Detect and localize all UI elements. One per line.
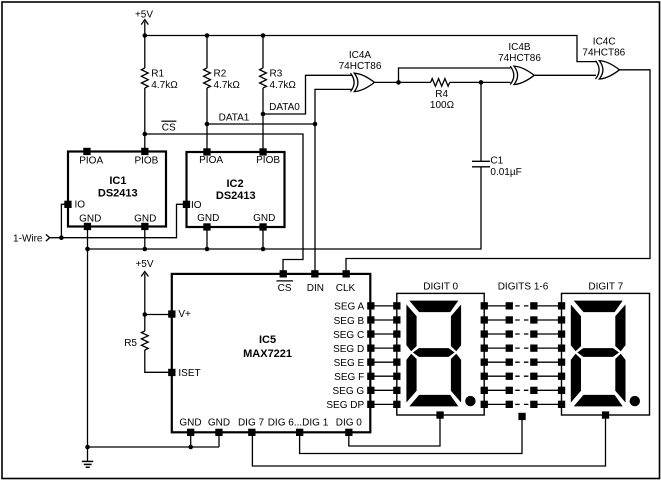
pin IC2 PIOA	[203, 148, 210, 155]
svg-text:PIOB: PIOB	[134, 156, 158, 167]
+5V supply arrow (top)	[141, 20, 148, 25]
svg-text:1-Wire: 1-Wire	[13, 234, 43, 245]
pin bus left SEG D	[506, 345, 513, 352]
pin IC5 SEG DP	[367, 401, 374, 408]
svg-text:IC2: IC2	[226, 178, 243, 190]
pin IC5 SEG A	[367, 302, 374, 309]
pin display2 SEG DP	[558, 401, 565, 408]
wire IC4B output to IC4C input	[534, 74, 597, 76]
pin bus left SEG F	[506, 373, 513, 380]
pin display2 SEG G	[558, 387, 565, 394]
svg-text:GND: GND	[197, 213, 219, 224]
svg-text:R4: R4	[435, 89, 448, 100]
wire bypass to IC4B top input	[399, 68, 511, 82]
pin display1 SEG A	[393, 302, 400, 309]
wire to R4	[399, 81, 431, 83]
pin display1 right SEG B	[481, 316, 488, 323]
svg-text:4.7kΩ: 4.7kΩ	[270, 80, 297, 91]
svg-text:SEG G: SEG G	[333, 386, 365, 397]
wire DATA1 to IC4A and DIN	[315, 89, 352, 272]
svg-text:100Ω: 100Ω	[430, 100, 455, 111]
pin display1 right SEG DP	[481, 401, 488, 408]
svg-text:IC4C: IC4C	[593, 37, 616, 48]
wire R1 to PIOB	[144, 88, 146, 150]
pin bus right SEG A	[530, 302, 537, 309]
svg-text:IC4A: IC4A	[349, 50, 372, 61]
wire DATA1 net	[207, 123, 315, 125]
pin IC2 PIOB	[259, 148, 266, 155]
capacitor C1	[472, 161, 490, 167]
svg-text:SEG D: SEG D	[333, 344, 364, 355]
pin IC5 GND1	[187, 429, 194, 436]
svg-text:R5: R5	[124, 338, 137, 349]
svg-text:PIOA: PIOA	[199, 155, 223, 166]
pin IC5 GND2	[215, 429, 222, 436]
pin display1 SEG G	[393, 387, 400, 394]
pin IC5 V+	[168, 310, 175, 317]
pin display1 SEG B	[393, 316, 400, 323]
svg-text:MAX7221: MAX7221	[243, 348, 292, 360]
wire +5V to V+	[145, 274, 169, 315]
pin IC5 SEG C	[367, 330, 374, 337]
pin IC1 GND1	[84, 223, 91, 230]
svg-text:DIN: DIN	[307, 283, 324, 294]
pin display1 SEG D	[393, 345, 400, 352]
wire SEG row	[371, 305, 397, 307]
pin bus left SEG E	[506, 359, 513, 366]
pin IC5 DIG6-1	[296, 429, 303, 436]
wire IC1 GND pins	[87, 227, 89, 249]
resistor R3	[260, 68, 267, 88]
pin bus right SEG DP	[530, 401, 537, 408]
svg-text:PIOB: PIOB	[256, 155, 280, 166]
IC1 DS2413 box	[68, 152, 166, 227]
wire R2 column	[206, 36, 208, 69]
wire DIG 0 to digit 0 display	[349, 415, 440, 446]
pin IC5 SEG D	[367, 345, 374, 352]
pin IC2 GND2	[259, 223, 266, 230]
svg-text:DIG 7: DIG 7	[238, 417, 265, 428]
pin display1 right SEG E	[481, 359, 488, 366]
svg-text:IO: IO	[75, 200, 86, 211]
svg-text:+5V: +5V	[135, 259, 153, 270]
pin bus right SEG C	[530, 330, 537, 337]
node GND IC2b	[261, 247, 266, 252]
wire DATA0 net	[263, 75, 352, 114]
svg-text:GND: GND	[208, 417, 230, 428]
pin IC5 SEG B	[367, 316, 374, 323]
node GND IC5	[188, 445, 193, 450]
svg-text:0.01µF: 0.01µF	[490, 167, 521, 178]
wire R3 to PIOB IC2	[262, 88, 264, 151]
pin IC5 CS	[280, 270, 287, 277]
svg-text:+5V: +5V	[135, 9, 153, 20]
1-Wire arrow	[46, 234, 50, 241]
svg-text:74HCT86: 74HCT86	[339, 61, 382, 72]
pin display2 SEG D	[558, 345, 565, 352]
pin bus left SEG B	[506, 316, 513, 323]
xor gate IC4B 74HCT86	[514, 66, 534, 84]
pin IC5 SEG F	[367, 373, 374, 380]
svg-text:DATA1: DATA1	[219, 112, 250, 123]
wire IO IC1	[61, 204, 65, 237]
resistor R4	[431, 79, 450, 87]
wire C1 top	[480, 82, 482, 161]
wire DIG 7 to digit 7 display	[252, 415, 605, 466]
wire SEG row	[371, 361, 397, 363]
IC5 MAX7221 box	[172, 274, 370, 432]
svg-text:R2: R2	[214, 69, 227, 80]
node GND IC1	[143, 247, 148, 252]
wire R5 to ISET	[145, 350, 169, 372]
svg-text:SEG E: SEG E	[334, 358, 365, 369]
wire DIG 6..1 to digits 1-6	[300, 417, 522, 454]
wire SEG row	[371, 319, 397, 321]
pin bus left SEG DP	[506, 401, 513, 408]
wire IC2 GND pins	[206, 228, 208, 250]
svg-text:DIGITS 1-6: DIGITS 1-6	[498, 282, 549, 293]
svg-text:R3: R3	[270, 69, 283, 80]
pin IC5 DIG7	[248, 429, 255, 436]
pin IC5 DIN	[311, 270, 318, 277]
pin IC5 CLK	[343, 270, 350, 277]
7-segment display DIGIT 0 box	[397, 293, 484, 415]
pin IC1 PIOA	[83, 148, 90, 155]
wire 1-Wire net	[50, 204, 183, 237]
svg-text:ISET: ISET	[178, 368, 200, 379]
pin display1 SEG C	[393, 330, 400, 337]
pin display1 SEG E	[393, 359, 400, 366]
pin bus left SEG C	[506, 330, 513, 337]
pin display1 DIG	[436, 411, 443, 418]
node GND rail left	[85, 247, 90, 252]
svg-text:CS: CS	[278, 283, 292, 294]
svg-text:GND: GND	[134, 213, 156, 224]
pin display1 SEG F	[393, 373, 400, 380]
pin digits1-6 DIG	[518, 413, 525, 420]
pin IC5 SEG G	[367, 387, 374, 394]
pin bus left SEG A	[506, 302, 513, 309]
svg-text:SEG DP: SEG DP	[326, 400, 364, 411]
wire SEG row	[371, 389, 397, 391]
resistor R5	[141, 331, 148, 350]
7-segment display DIGIT 7 box	[562, 293, 650, 415]
svg-text:DS2413: DS2413	[98, 188, 138, 200]
wire R4 to IC4B bottom input	[450, 81, 511, 83]
node +5V/R5/V+	[143, 312, 148, 317]
svg-text:PIOA: PIOA	[79, 156, 103, 167]
pin IC1 IO	[64, 201, 71, 208]
svg-text:C1: C1	[490, 156, 503, 167]
node DATA0	[261, 112, 266, 117]
node 1-Wire/IO	[59, 235, 64, 240]
pin IC5 SEG E	[367, 359, 374, 366]
IC2 DS2413 box	[187, 152, 285, 227]
pin display2 SEG E	[558, 359, 565, 366]
node +5V/R1	[143, 33, 148, 38]
svg-text:CS: CS	[162, 123, 176, 134]
wire CS net	[145, 134, 303, 272]
wire IC5 GND pins to rail	[190, 433, 192, 447]
svg-text:GND: GND	[179, 417, 201, 428]
7-segment digit 0 glyph	[409, 301, 458, 313]
svg-text:74HCT86: 74HCT86	[498, 53, 541, 64]
svg-text:74HCT86: 74HCT86	[582, 48, 625, 59]
wire IC4A output	[375, 81, 399, 83]
svg-text:SEG F: SEG F	[334, 372, 364, 383]
pin bus right SEG F	[530, 373, 537, 380]
pin display2 DIG	[602, 411, 609, 418]
node IC4A out	[396, 80, 401, 85]
wire IC4C output to CLK	[346, 70, 650, 272]
pin IC2 IO	[183, 201, 190, 208]
wire R1 column	[144, 36, 146, 69]
xor gate IC4C 74HCT86	[599, 61, 619, 79]
pin bus left SEG G	[506, 387, 513, 394]
wire bottom ground rail	[88, 446, 220, 448]
node DATA1/DIN	[313, 122, 318, 127]
node GND bottom	[85, 445, 90, 450]
pin display2 SEG B	[558, 316, 565, 323]
wire main ground vertical	[87, 249, 89, 461]
pin bus right SEG E	[530, 359, 537, 366]
7-segment digit 7 glyph	[574, 301, 623, 313]
pin display1 right SEG C	[481, 330, 488, 337]
node DATA1	[205, 122, 210, 127]
xor gate IC4A 74HCT86	[354, 73, 374, 91]
svg-text:IC5: IC5	[259, 334, 276, 346]
wire SEG row	[371, 375, 397, 377]
pin bus right SEG D	[530, 345, 537, 352]
svg-text:R1: R1	[151, 69, 164, 80]
node GND IC2a	[205, 247, 210, 252]
pin display1 SEG DP	[393, 401, 400, 408]
svg-text:IC4B: IC4B	[508, 42, 531, 53]
pin bus right SEG B	[530, 316, 537, 323]
svg-text:4.7kΩ: 4.7kΩ	[214, 80, 241, 91]
svg-text:GND: GND	[253, 213, 275, 224]
pin display1 right SEG A	[481, 302, 488, 309]
wire SEG row	[371, 333, 397, 335]
pin display1 right SEG G	[481, 387, 488, 394]
svg-text:DIGIT 7: DIGIT 7	[588, 282, 623, 293]
pin IC1 PIOB	[141, 148, 148, 155]
wire R3 column	[262, 36, 264, 69]
resistor R2	[204, 68, 211, 88]
pin display2 SEG C	[558, 330, 565, 337]
svg-text:CLK: CLK	[336, 283, 356, 294]
svg-text:SEG C: SEG C	[333, 330, 364, 341]
pin display2 SEG A	[558, 302, 565, 309]
wire R2 to PIOA	[206, 88, 208, 151]
svg-text:4.7kΩ: 4.7kΩ	[151, 80, 178, 91]
ground	[82, 461, 93, 467]
node +5V/R3	[261, 33, 266, 38]
svg-text:DATA0: DATA0	[269, 102, 300, 113]
svg-text:SEG A: SEG A	[334, 302, 364, 313]
wire +5V rail to IC4C input	[145, 36, 597, 62]
svg-text:DIG 6...DIG 1: DIG 6...DIG 1	[268, 417, 329, 428]
node R4/C1	[479, 80, 484, 85]
wire C1 bottom to GND rail	[88, 167, 482, 249]
svg-text:IO: IO	[191, 200, 202, 211]
svg-text:V+: V+	[178, 309, 191, 320]
resistor R1	[141, 68, 148, 88]
pin IC5 ISET	[168, 369, 175, 376]
svg-text:SEG B: SEG B	[334, 316, 365, 327]
svg-text:DS2413: DS2413	[216, 190, 256, 202]
node +5V/R2	[205, 33, 210, 38]
pin display1 right SEG D	[481, 345, 488, 352]
wire SEG row	[371, 403, 397, 405]
pin display2 SEG F	[558, 373, 565, 380]
+5V supply arrow (lower)	[141, 272, 148, 277]
svg-text:GND: GND	[79, 213, 101, 224]
svg-text:IC1: IC1	[109, 175, 126, 187]
node CS	[143, 132, 148, 137]
pin bus right SEG G	[530, 387, 537, 394]
wire SEG row	[371, 347, 397, 349]
wire R5 top	[144, 315, 146, 332]
svg-text:DIG 0: DIG 0	[336, 417, 363, 428]
svg-text:DIGIT 0: DIGIT 0	[423, 282, 458, 293]
pin IC2 GND1	[203, 223, 210, 230]
pin display1 right SEG F	[481, 373, 488, 380]
pin IC1 GND2	[141, 223, 148, 230]
pin IC5 DIG0	[345, 429, 352, 436]
